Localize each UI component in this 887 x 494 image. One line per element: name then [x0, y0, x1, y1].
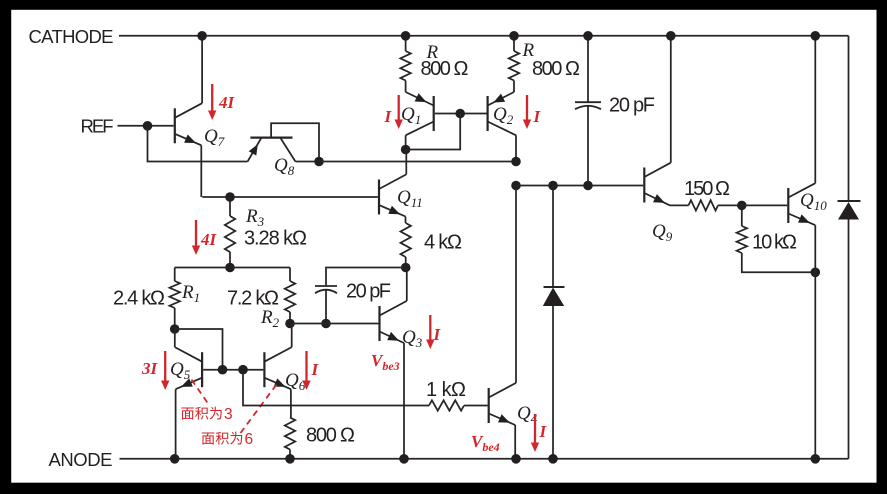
label 2.4 kΩ	[113, 288, 165, 310]
wire REF lead	[118, 125, 148, 127]
transistor Q1	[406, 92, 487, 150]
transistor Q9	[644, 36, 688, 206]
wire R1-R2 top bus	[175, 267, 290, 269]
svg-text:3I: 3I	[141, 359, 159, 378]
junction Q9 collector on cathode rail	[666, 31, 676, 41]
label I at Q2	[533, 107, 542, 126]
svg-text:20 pF: 20 pF	[346, 281, 391, 303]
resistor R3	[225, 197, 235, 268]
diode D2	[838, 201, 861, 220]
label Q9	[652, 221, 673, 244]
wire Q7 base from REF node	[148, 125, 174, 127]
label I at Q4	[539, 422, 548, 441]
label Vbe3	[371, 351, 400, 373]
svg-text:150 Ω: 150 Ω	[684, 178, 730, 200]
label 20 pF (upper)	[609, 95, 655, 117]
wire 1 kΩ to Q4 base	[464, 405, 488, 407]
current arrow I at Q3	[426, 315, 434, 349]
label 800 Ω (right)	[532, 58, 580, 80]
annotation dashed line to Q5 emitter	[192, 380, 209, 404]
label 150 Ω	[684, 178, 730, 200]
label 4I at R3	[200, 230, 218, 249]
resistor R1	[170, 268, 180, 330]
svg-text:800 Ω: 800 Ω	[306, 425, 355, 447]
label Q7	[204, 126, 225, 149]
label Q10	[800, 190, 827, 213]
annotation label 面积为6 (area is 6)	[202, 431, 253, 448]
wire REF to Q8 emitter	[148, 126, 248, 162]
svg-text:1 kΩ: 1 kΩ	[426, 379, 466, 401]
transistor Q5	[175, 329, 202, 459]
node C2 bottom junction	[321, 319, 331, 329]
node R3 top junction	[225, 192, 235, 202]
svg-text:2.4 kΩ: 2.4 kΩ	[113, 288, 165, 310]
node R1 bottom junction	[170, 324, 180, 334]
label 800 Ω (left)	[421, 58, 469, 80]
wire Q7 emitter to Q11 base	[202, 196, 378, 198]
label I at Q3	[433, 325, 442, 344]
junction Q10 collector on cathode rail	[811, 31, 821, 41]
current arrow 4I at Q7	[208, 84, 216, 120]
wire right rail upper	[848, 36, 850, 201]
wire base node to mirror node	[406, 114, 461, 150]
svg-text:CATHODE: CATHODE	[29, 26, 114, 47]
node 10 kΩ to Q10 emitter junction	[811, 268, 821, 278]
transistor Q6	[264, 324, 291, 418]
svg-text:4I: 4I	[200, 230, 218, 249]
junction C1 on cathode rail	[583, 31, 593, 41]
transistor Q11	[379, 150, 406, 224]
label 3I at Q5	[141, 359, 159, 378]
node Q1 collector-base mirror junction	[401, 145, 411, 155]
label I at Q6	[311, 360, 320, 379]
label Q2	[493, 104, 514, 127]
label Q5	[170, 359, 191, 382]
transistor Q2	[488, 92, 516, 162]
capacitor C1 20 pF	[575, 36, 601, 186]
wire base bus to 1 kΩ	[243, 370, 429, 406]
resistor 1 kΩ	[429, 400, 464, 410]
label 4 kΩ	[424, 232, 462, 254]
node ANODE label	[49, 449, 113, 470]
label 10 kΩ	[752, 232, 797, 254]
node Q8 collector-base junction	[314, 157, 324, 167]
resistor 150 Ω	[689, 200, 742, 210]
label R3	[245, 206, 265, 229]
node R2 bottom junction	[285, 319, 295, 329]
junction Q7 collector on cathode rail	[197, 31, 207, 41]
transistor Q7	[175, 36, 202, 197]
node Q10 emitter on anode rail	[811, 454, 821, 464]
node 150 Ω - 10 kΩ junction	[737, 201, 747, 211]
label 800 Ω (bottom)	[306, 425, 355, 447]
label 20 pF (lower)	[346, 281, 391, 303]
node 800 Ω on anode rail	[285, 454, 295, 464]
wire R2 node to Q3 base	[290, 323, 378, 325]
current arrow I at Q2	[523, 95, 531, 129]
current arrow 3I at Q5	[161, 351, 169, 390]
wire right rail lower	[848, 220, 850, 459]
wire Q8 to Q2 collector bus	[319, 161, 516, 163]
label I at Q1	[384, 107, 393, 126]
node R3 bottom junction	[225, 263, 235, 273]
svg-text:REF: REF	[81, 116, 114, 137]
junction R right on cathode rail	[509, 31, 519, 41]
label 3.28 kΩ	[244, 228, 307, 250]
node D1 on anode rail	[548, 454, 558, 464]
junction R left on cathode rail	[401, 31, 411, 41]
node REF junction	[143, 121, 153, 131]
transistor Q8	[248, 123, 319, 161]
label Q11	[397, 187, 423, 210]
node D1 top junction	[548, 181, 558, 191]
capacitor C2 20 pF	[315, 286, 337, 324]
label 7.2 kΩ	[227, 288, 279, 310]
node base bus junction right	[238, 365, 248, 375]
label Q4	[517, 403, 538, 426]
resistor 10 kΩ	[737, 205, 816, 272]
diode D1	[543, 186, 565, 459]
wire junction to Q10 base	[742, 204, 787, 206]
svg-text:800 Ω: 800 Ω	[532, 58, 580, 80]
label R (left)	[426, 42, 439, 63]
label 1 kΩ	[426, 379, 466, 401]
node Q2-Q4 collector junction	[511, 181, 521, 191]
wire Q5-Q6 base bus	[203, 369, 263, 371]
label Q6	[285, 370, 306, 393]
svg-text:3: 3	[224, 406, 233, 423]
resistor R (left)	[400, 36, 410, 92]
transistor Q3	[380, 268, 407, 459]
current arrow I at Q1	[395, 95, 403, 129]
resistor R2	[285, 268, 295, 324]
wire collector bus to Q9 base	[516, 185, 643, 187]
svg-text:800 Ω: 800 Ω	[421, 58, 469, 80]
transistor Q10	[788, 36, 815, 459]
wire cathode rail	[119, 35, 849, 37]
label 4I at Q7	[218, 93, 236, 112]
annotation label 面积为3 (area is 3)	[181, 406, 232, 423]
node 4 kΩ bottom junction	[401, 263, 411, 273]
svg-text:6: 6	[245, 431, 254, 448]
label Q8	[274, 155, 295, 178]
resistor 4 kΩ	[401, 223, 411, 268]
resistor R (right)	[509, 36, 519, 92]
transistor Q4	[489, 186, 516, 459]
label Q3	[402, 327, 423, 350]
current arrow I at Q4	[531, 414, 539, 452]
current arrow 4I at R3	[192, 220, 200, 255]
label R1	[181, 282, 200, 305]
wire R1 node to Q5-Q6 base	[175, 329, 223, 370]
node C1 bottom junction	[583, 181, 593, 191]
node base bus junction left	[218, 365, 228, 375]
label Q1	[401, 104, 421, 127]
label R2	[260, 307, 280, 330]
wire 4 kΩ bottom to C2	[326, 268, 406, 287]
node REF label	[81, 116, 114, 137]
wire anode rail	[120, 458, 849, 460]
svg-text:4I: 4I	[218, 93, 236, 112]
current arrow I at Q6	[302, 351, 310, 390]
svg-text:ANODE: ANODE	[49, 449, 113, 470]
label Vbe4	[471, 432, 500, 454]
label R (right)	[522, 40, 535, 61]
node CATHODE label	[29, 26, 114, 47]
node Q2 collector junction	[511, 157, 521, 167]
svg-text:4 kΩ: 4 kΩ	[424, 232, 462, 254]
node Q4 emitter on anode rail	[511, 454, 521, 464]
svg-text:20 pF: 20 pF	[609, 95, 655, 117]
svg-text:10 kΩ: 10 kΩ	[752, 232, 797, 254]
annotation dashed line to Q6 emitter	[241, 381, 280, 434]
node Q1-Q2 base junction	[455, 109, 465, 119]
node Q5 emitter on anode rail	[170, 454, 180, 464]
resistor 800 Ω (bottom)	[285, 418, 295, 459]
svg-text:3.28 kΩ: 3.28 kΩ	[244, 228, 307, 250]
node Q3 emitter on anode rail	[399, 454, 409, 464]
